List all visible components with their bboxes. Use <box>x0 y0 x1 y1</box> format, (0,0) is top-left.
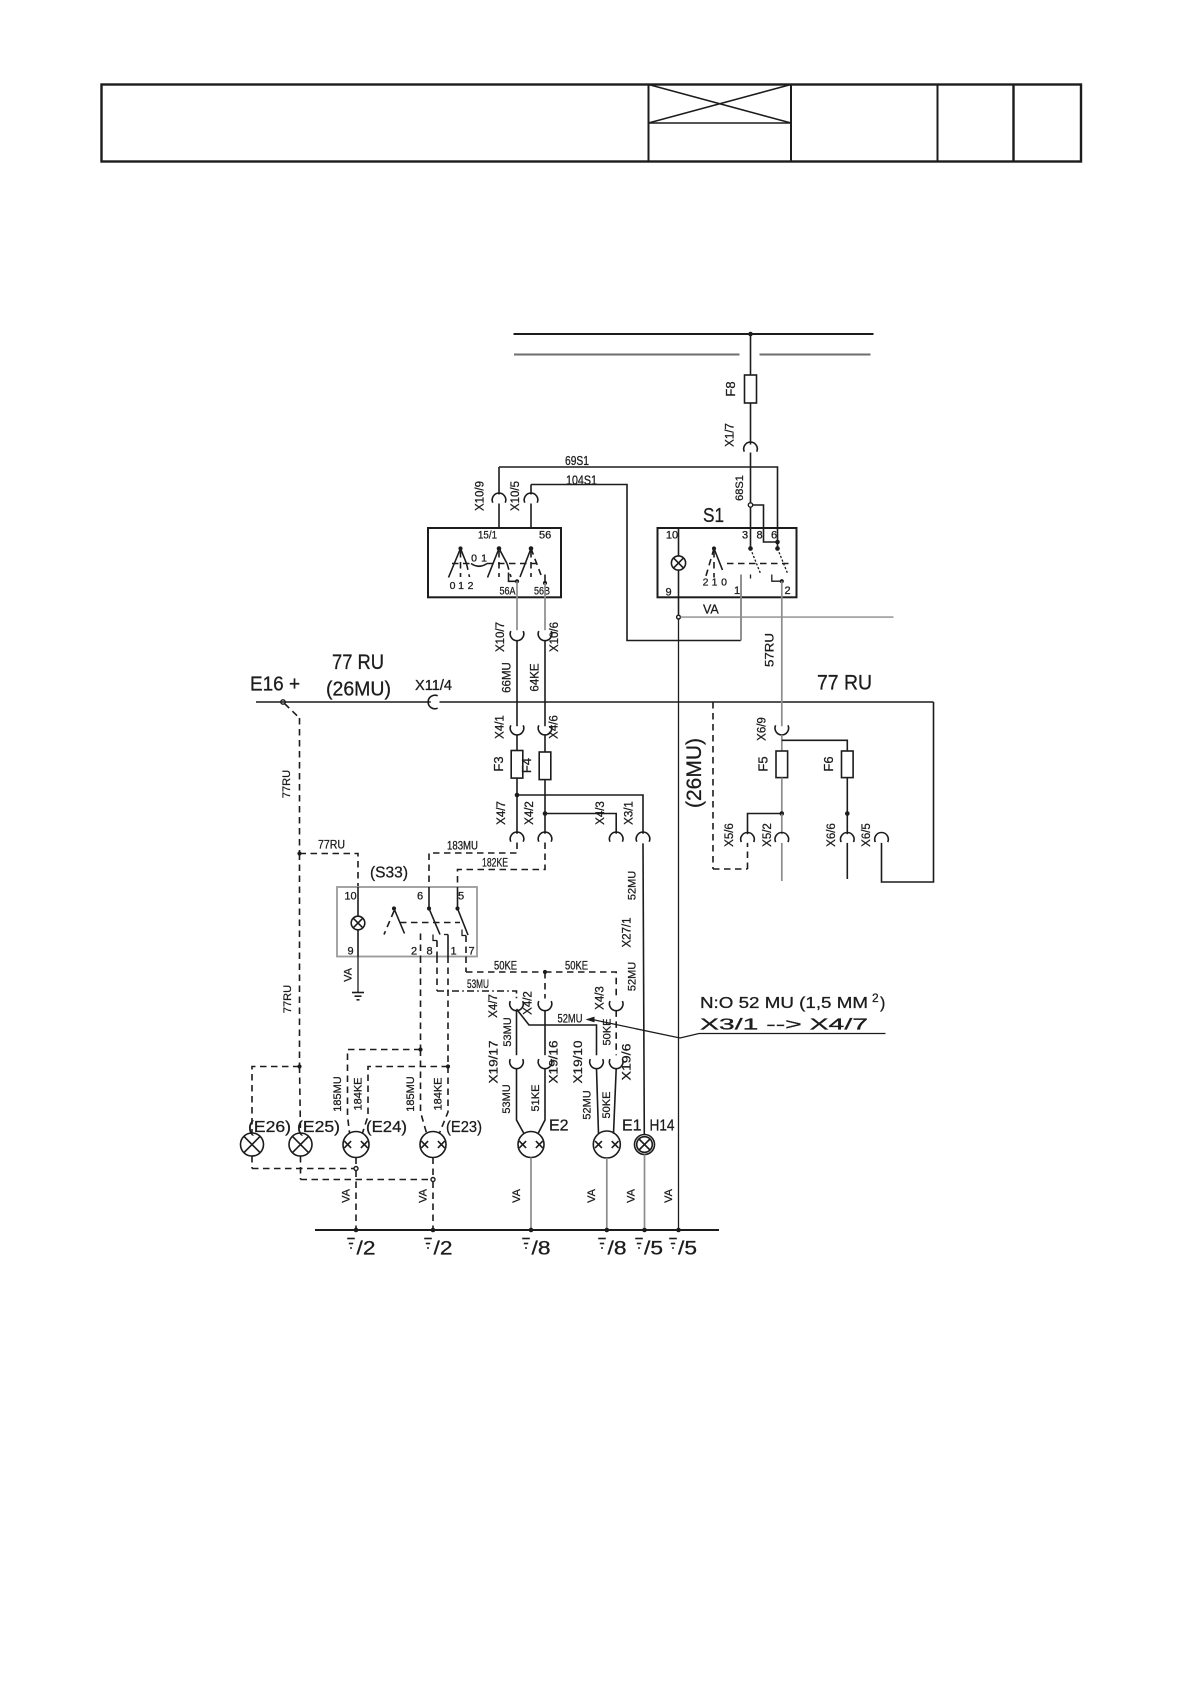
svg-text:(E25): (E25) <box>297 1119 340 1136</box>
svg-text:53MU: 53MU <box>467 977 489 991</box>
svg-text:VA: VA <box>511 1188 523 1203</box>
svg-text:2: 2 <box>468 580 474 592</box>
svg-text:(E24): (E24) <box>366 1119 407 1136</box>
svg-text:(26MU): (26MU) <box>683 738 706 808</box>
svg-text:X5/6: X5/6 <box>724 823 736 847</box>
svg-text:183MU: 183MU <box>447 839 478 853</box>
svg-text:66MU: 66MU <box>502 662 514 693</box>
svg-text:2: 2 <box>784 585 790 597</box>
svg-text:185MU: 185MU <box>405 1076 417 1112</box>
svg-text:(E26): (E26) <box>248 1119 291 1136</box>
svg-text:2: 2 <box>703 577 709 589</box>
svg-text:X19/6: X19/6 <box>622 1044 634 1081</box>
svg-text:182KE: 182KE <box>482 856 508 870</box>
svg-text:X6/6: X6/6 <box>826 823 838 847</box>
svg-text:VA: VA <box>586 1188 598 1203</box>
svg-text:6: 6 <box>771 530 777 542</box>
svg-text:2: 2 <box>411 946 417 958</box>
svg-text:51KE: 51KE <box>530 1085 542 1112</box>
svg-text:1: 1 <box>450 946 456 958</box>
svg-text:X4/2: X4/2 <box>523 991 535 1015</box>
svg-text:(S33): (S33) <box>370 865 408 882</box>
svg-text:/2: /2 <box>357 1239 376 1260</box>
svg-text:VA: VA <box>418 1188 430 1203</box>
svg-text:X4/7: X4/7 <box>496 801 508 825</box>
svg-text:VA: VA <box>341 1188 353 1203</box>
svg-text:56B: 56B <box>534 586 550 598</box>
svg-text:X4/2: X4/2 <box>524 801 536 825</box>
svg-text:0: 0 <box>721 577 727 589</box>
svg-text:X19/16: X19/16 <box>549 1041 561 1084</box>
svg-text:1: 1 <box>712 577 718 589</box>
svg-text:(E23): (E23) <box>446 1119 482 1136</box>
svg-text:69S1: 69S1 <box>565 454 589 468</box>
svg-text:VA: VA <box>626 1188 638 1203</box>
svg-text:15/1: 15/1 <box>478 530 497 542</box>
svg-text:53MU: 53MU <box>501 1084 513 1113</box>
svg-text:10: 10 <box>344 891 356 903</box>
svg-text:X27/1: X27/1 <box>622 917 634 947</box>
svg-text:E2: E2 <box>549 1118 569 1135</box>
svg-text:77RU: 77RU <box>281 770 293 798</box>
svg-text:0: 0 <box>471 553 477 565</box>
svg-text:N:O 52 MU (1,5 MM: N:O 52 MU (1,5 MM <box>700 995 868 1012</box>
svg-text:/8: /8 <box>532 1239 551 1260</box>
svg-text:/2: /2 <box>434 1239 453 1260</box>
svg-text:184KE: 184KE <box>433 1077 445 1110</box>
svg-text:77 RU: 77 RU <box>332 650 384 674</box>
svg-text:52MU: 52MU <box>558 1012 583 1026</box>
svg-text:X11/4: X11/4 <box>415 677 452 694</box>
svg-text:6: 6 <box>417 891 423 903</box>
svg-text:77RU: 77RU <box>318 838 345 852</box>
svg-text:10: 10 <box>666 530 678 542</box>
svg-text:0: 0 <box>450 580 456 592</box>
svg-text:1: 1 <box>734 585 740 597</box>
svg-text:5: 5 <box>458 891 464 903</box>
svg-text:56: 56 <box>539 530 551 542</box>
svg-text:50KE: 50KE <box>601 1092 613 1119</box>
svg-text:9: 9 <box>347 946 353 958</box>
svg-text:X4/1: X4/1 <box>495 715 507 739</box>
svg-text:184KE: 184KE <box>353 1077 365 1110</box>
svg-text:X10/5: X10/5 <box>510 481 522 511</box>
svg-text:1: 1 <box>481 553 487 565</box>
svg-text:S1: S1 <box>703 505 724 527</box>
svg-text:X4/6: X4/6 <box>549 715 561 739</box>
svg-text:57RU: 57RU <box>765 633 777 667</box>
svg-text:/5: /5 <box>678 1239 697 1260</box>
svg-text:50KE: 50KE <box>565 959 588 973</box>
svg-text:X1/7: X1/7 <box>725 423 737 447</box>
svg-text:E1: E1 <box>622 1118 642 1135</box>
svg-text:X4/7: X4/7 <box>488 994 500 1018</box>
svg-text:X4/3: X4/3 <box>595 801 607 825</box>
svg-text:1: 1 <box>458 580 464 592</box>
svg-text:8: 8 <box>756 530 762 542</box>
svg-text:X10/6: X10/6 <box>549 622 561 652</box>
svg-text:53MU: 53MU <box>502 1017 514 1046</box>
svg-text:H14: H14 <box>650 1118 675 1135</box>
svg-text:X19/10: X19/10 <box>573 1041 585 1084</box>
svg-text:X4/3: X4/3 <box>595 986 607 1010</box>
svg-text:X19/17: X19/17 <box>489 1041 501 1084</box>
svg-text:2: 2 <box>872 991 879 1005</box>
svg-text:VA: VA <box>663 1188 675 1203</box>
svg-text:/5: /5 <box>644 1239 663 1260</box>
svg-text:7: 7 <box>468 946 474 958</box>
svg-text:F8: F8 <box>723 381 738 396</box>
svg-text:E16 +: E16 + <box>250 674 300 696</box>
svg-text:X10/7: X10/7 <box>495 622 507 652</box>
svg-text:/8: /8 <box>608 1239 627 1260</box>
svg-text:X6/9: X6/9 <box>757 717 769 741</box>
svg-text:F4: F4 <box>519 758 534 773</box>
svg-text:X10/9: X10/9 <box>475 481 487 511</box>
svg-text:VA: VA <box>343 967 355 982</box>
svg-text:77 RU: 77 RU <box>817 671 872 695</box>
svg-text:185MU: 185MU <box>332 1076 344 1112</box>
svg-text:X3/1: X3/1 <box>624 801 636 825</box>
svg-text:64KE: 64KE <box>530 663 542 691</box>
svg-text:50KE: 50KE <box>602 1019 614 1046</box>
svg-text:3: 3 <box>742 530 748 542</box>
svg-text:52MU: 52MU <box>627 962 639 991</box>
svg-text:68S1: 68S1 <box>734 475 746 501</box>
svg-text:F5: F5 <box>756 756 771 771</box>
svg-text:104S1: 104S1 <box>566 474 597 488</box>
svg-text:): ) <box>880 995 885 1012</box>
svg-text:52MU: 52MU <box>582 1090 594 1119</box>
svg-text:X5/2: X5/2 <box>762 823 774 847</box>
svg-text:56A: 56A <box>500 586 517 598</box>
svg-text:F6: F6 <box>821 756 836 771</box>
svg-text:(26MU): (26MU) <box>326 679 391 701</box>
svg-text:9: 9 <box>665 587 671 599</box>
svg-text:8: 8 <box>426 946 432 958</box>
svg-text:52MU: 52MU <box>627 871 639 900</box>
svg-text:F3: F3 <box>491 756 506 771</box>
svg-text:X3/1 --> X4/7: X3/1 --> X4/7 <box>700 1017 868 1034</box>
svg-text:VA: VA <box>703 603 719 617</box>
svg-text:77RU: 77RU <box>282 985 294 1013</box>
svg-text:50KE: 50KE <box>494 959 517 973</box>
svg-text:X6/5: X6/5 <box>861 823 873 847</box>
